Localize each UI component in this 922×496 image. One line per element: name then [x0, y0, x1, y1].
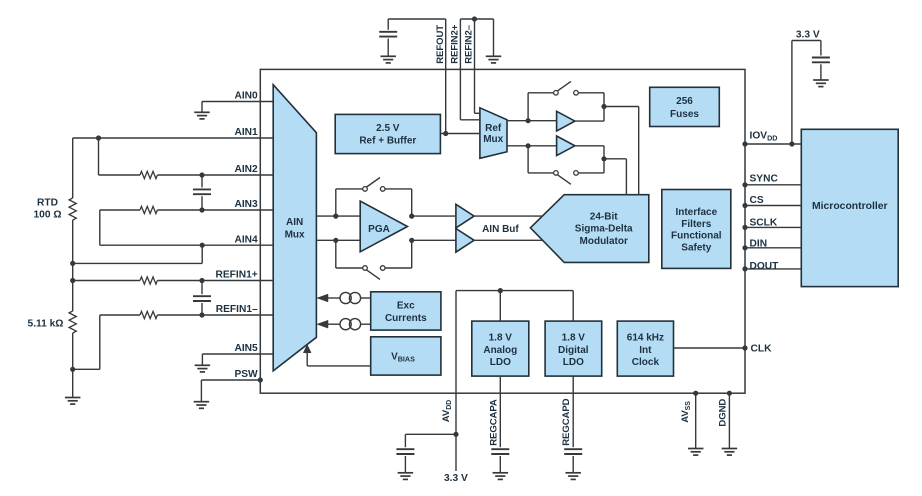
svg-text:1.8 V: 1.8 V — [562, 333, 586, 344]
svg-text:AIN4: AIN4 — [234, 234, 258, 245]
svg-text:PGA: PGA — [368, 224, 390, 235]
svg-text:AIN1: AIN1 — [234, 127, 258, 138]
svg-text:Safety: Safety — [681, 243, 711, 254]
svg-text:2.5 V: 2.5 V — [376, 123, 400, 134]
svg-text:100 Ω: 100 Ω — [34, 209, 62, 220]
svg-text:Microcontroller: Microcontroller — [812, 201, 888, 212]
svg-text:Mux: Mux — [285, 230, 305, 241]
svg-text:DGND: DGND — [718, 399, 729, 427]
svg-text:REFIN2–: REFIN2– — [464, 24, 475, 64]
svg-text:Currents: Currents — [385, 313, 427, 324]
svg-text:REFOUT: REFOUT — [435, 25, 446, 64]
svg-text:3.3 V: 3.3 V — [444, 473, 468, 484]
svg-text:REGCAPD: REGCAPD — [561, 398, 572, 445]
svg-text:AIN: AIN — [286, 217, 303, 228]
svg-text:LDO: LDO — [490, 357, 511, 368]
svg-text:CS: CS — [750, 195, 764, 206]
svg-text:Clock: Clock — [632, 357, 660, 368]
svg-text:Ref: Ref — [485, 123, 502, 134]
svg-text:Int: Int — [639, 345, 652, 356]
svg-text:Exc: Exc — [397, 301, 415, 312]
svg-text:REFIN1–: REFIN1– — [216, 304, 258, 315]
svg-text:5.11 kΩ: 5.11 kΩ — [28, 319, 64, 330]
svg-text:LDO: LDO — [563, 357, 584, 368]
svg-text:AIN0: AIN0 — [234, 91, 258, 102]
svg-text:SCLK: SCLK — [750, 218, 778, 229]
svg-text:AIN Buf: AIN Buf — [482, 224, 519, 235]
svg-text:DOUT: DOUT — [750, 261, 780, 272]
svg-text:Modulator: Modulator — [580, 236, 628, 247]
svg-text:AIN5: AIN5 — [234, 343, 258, 354]
svg-text:256: 256 — [676, 96, 693, 107]
svg-text:RTD: RTD — [37, 197, 58, 208]
svg-text:Interface: Interface — [675, 207, 717, 218]
svg-text:AIN2: AIN2 — [234, 164, 258, 175]
svg-text:Functional: Functional — [671, 231, 722, 242]
svg-text:SYNC: SYNC — [750, 174, 779, 185]
svg-text:Mux: Mux — [483, 134, 503, 145]
svg-text:CLK: CLK — [751, 343, 773, 354]
svg-text:Filters: Filters — [681, 219, 711, 230]
svg-text:Analog: Analog — [483, 345, 517, 356]
svg-text:614 kHz: 614 kHz — [627, 333, 664, 344]
svg-text:Fuses: Fuses — [670, 109, 699, 120]
svg-text:Sigma-Delta: Sigma-Delta — [575, 224, 633, 235]
svg-text:REFIN1+: REFIN1+ — [216, 270, 258, 281]
svg-text:1.8 V: 1.8 V — [489, 333, 513, 344]
svg-text:Ref + Buffer: Ref + Buffer — [359, 135, 416, 146]
svg-text:REGCAPA: REGCAPA — [488, 399, 499, 446]
svg-text:REFIN2+: REFIN2+ — [450, 24, 461, 64]
svg-text:24-Bit: 24-Bit — [590, 211, 618, 222]
svg-text:Digital: Digital — [558, 345, 589, 356]
svg-text:AIN3: AIN3 — [234, 199, 258, 210]
svg-text:PSW: PSW — [234, 369, 258, 380]
svg-text:DIN: DIN — [750, 239, 768, 250]
svg-text:3.3 V: 3.3 V — [796, 29, 820, 40]
